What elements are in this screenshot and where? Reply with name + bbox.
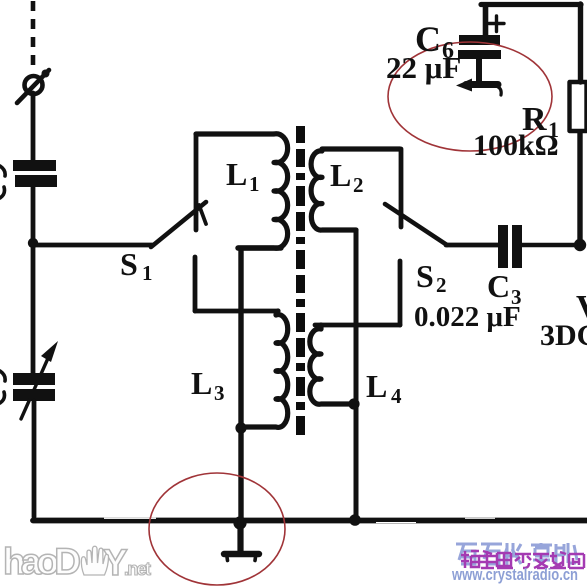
variable capacitor C2 plates <box>13 373 55 385</box>
svg-text:100kΩ: 100kΩ <box>473 129 559 162</box>
capacitor C6 bottom plate <box>458 50 501 59</box>
switch S2 blade <box>385 204 447 245</box>
wire top rail to R1 <box>578 4 583 82</box>
inductor L3 <box>241 311 288 427</box>
top rail wire <box>481 2 581 7</box>
capacitor C6 top plate <box>459 35 500 45</box>
wire S2 pivot to C3 <box>446 243 498 248</box>
switch S1 lower contact <box>193 257 198 311</box>
C1 partial label at left edge <box>0 166 5 198</box>
svg-text:S: S <box>120 246 138 282</box>
svg-text:3: 3 <box>214 381 225 405</box>
svg-text:C: C <box>487 268 510 304</box>
node junction dot L3 bottom <box>235 422 246 433</box>
svg-text:L: L <box>330 157 351 193</box>
switch S1 blade <box>151 202 206 247</box>
wire R1 bottom to node B <box>577 131 582 245</box>
wire variable capacitor to bottom rail <box>32 401 37 517</box>
inductor L1 <box>196 134 288 249</box>
watermark jinghua dianzi CJK row (magenta) <box>461 551 584 568</box>
svg-text:haoD: haoD <box>3 541 81 582</box>
node A junction dot <box>28 238 38 248</box>
svg-text:2: 2 <box>436 273 447 297</box>
svg-text:L: L <box>226 156 247 192</box>
svg-text:3DG: 3DG <box>540 319 587 352</box>
red annotation ellipse top <box>388 42 552 151</box>
node B junction dot <box>574 239 586 251</box>
svg-text:0.022 μF: 0.022 μF <box>414 301 521 333</box>
switch S2 lower contact <box>398 261 403 325</box>
svg-text:1: 1 <box>142 261 153 285</box>
C6 polarity plus sign <box>489 16 504 32</box>
watermark haoDIY logo <box>3 541 151 583</box>
watermark crystal radio faint CJK row <box>456 543 577 565</box>
red annotation ellipse bottom <box>149 473 285 585</box>
inductor L4 <box>310 325 354 404</box>
inductor L2 <box>311 149 400 230</box>
C2 partial label at left edge <box>0 371 5 403</box>
ground symbol <box>237 520 243 552</box>
svg-text:L: L <box>191 365 212 401</box>
svg-text:www.crystalradio.cn: www.crystalradio.cn <box>451 565 578 584</box>
svg-text:S: S <box>416 258 434 294</box>
svg-text:2: 2 <box>353 173 364 197</box>
wire node A to S1 pivot <box>33 243 152 248</box>
node junction dot at bottom rail right <box>349 514 361 526</box>
node junction dot L4 bottom <box>348 398 359 409</box>
antenna trimmer symbol (slashed circle) <box>25 76 43 94</box>
bottom rail wire <box>33 518 587 524</box>
wire C3 to node B <box>522 243 580 247</box>
wire C1 to node A <box>31 187 36 243</box>
wire L2 top to S2 upper contact <box>399 149 404 227</box>
C6 ground stem <box>476 59 482 82</box>
svg-text:1: 1 <box>249 172 260 196</box>
scan texture light breaks on bottom rail <box>104 518 156 519</box>
svg-text:L: L <box>366 368 387 404</box>
watermark hand icon <box>81 546 108 575</box>
wire L2 bottom to bottom rail (vertical) <box>354 230 359 519</box>
wire top rail to C6 <box>483 5 489 36</box>
ground node junction dot <box>233 516 246 529</box>
wire L1 bottom to ground (vertical bus) <box>238 248 281 520</box>
switch S1 upper contact <box>194 134 199 230</box>
antenna lead dashed wire <box>31 1 36 66</box>
wire node A to variable capacitor <box>31 243 36 373</box>
svg-text:22 μF: 22 μF <box>386 50 461 85</box>
capacitor C1 plates <box>13 160 56 171</box>
wire circle to C1 <box>31 93 36 161</box>
C6 ground bar with arrow end <box>466 81 498 88</box>
transformer core (dashed) <box>296 126 305 435</box>
wire S1 lower contact to L3 top <box>195 309 278 314</box>
svg-text:.net: .net <box>124 559 151 579</box>
wire S2 lower contact to L4 top <box>315 323 400 328</box>
svg-text:4: 4 <box>391 384 402 408</box>
capacitor C3 plates <box>498 225 508 268</box>
switch S1 blade tick <box>199 205 206 224</box>
variable capacitor arrow <box>21 356 49 419</box>
resistor R1 body <box>570 82 587 131</box>
